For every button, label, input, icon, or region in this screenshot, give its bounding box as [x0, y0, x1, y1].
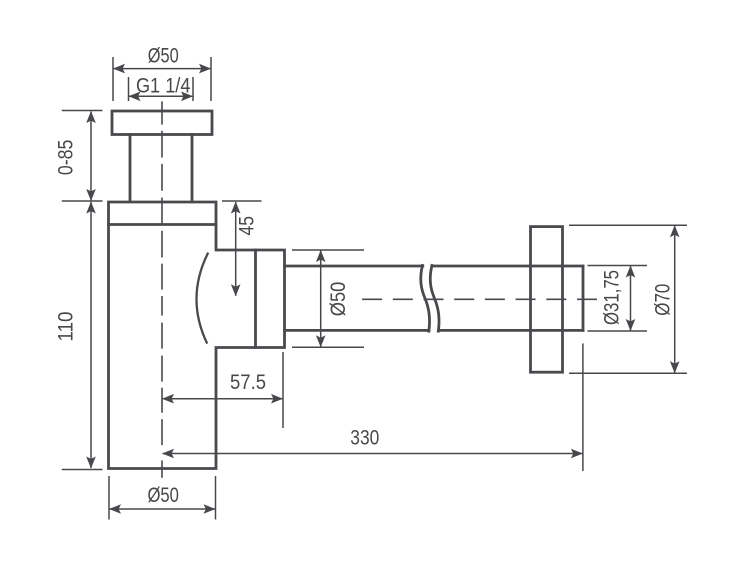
svg-text:45: 45 — [236, 216, 259, 236]
svg-text:0-85: 0-85 — [55, 140, 78, 176]
svg-text:57.5: 57.5 — [230, 371, 266, 394]
svg-text:G1 1/4: G1 1/4 — [136, 75, 191, 98]
svg-text:Ø31,75: Ø31,75 — [601, 270, 624, 325]
svg-text:330: 330 — [350, 427, 379, 450]
svg-text:Ø50: Ø50 — [148, 44, 179, 67]
svg-text:Ø50: Ø50 — [327, 282, 350, 317]
svg-text:Ø50: Ø50 — [147, 484, 179, 507]
svg-text:110: 110 — [55, 312, 78, 342]
svg-text:Ø70: Ø70 — [652, 284, 675, 316]
